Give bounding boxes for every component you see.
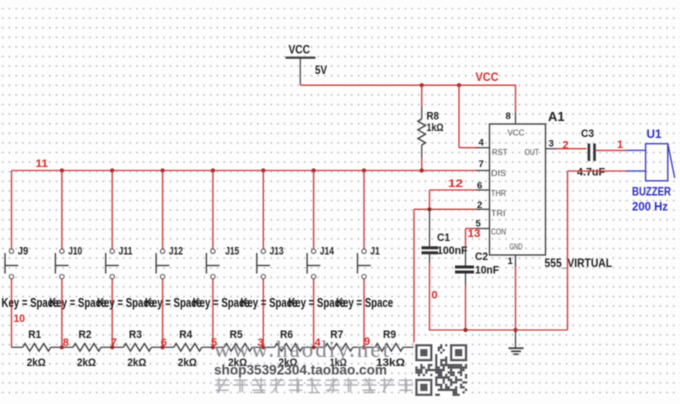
svg-text:R4: R4 xyxy=(179,329,193,341)
svg-text:6: 6 xyxy=(161,337,167,349)
net label 12 xyxy=(448,178,463,190)
watermark chinese caption xyxy=(215,378,414,393)
svg-text:R1: R1 xyxy=(28,329,41,341)
switch J14 key=space xyxy=(307,171,334,348)
svg-text:A1: A1 xyxy=(548,110,565,124)
svg-text:DIS: DIS xyxy=(491,169,506,178)
buzzer label BUZZER xyxy=(632,185,671,199)
svg-text:VCC: VCC xyxy=(289,45,311,57)
switch J13 key=space xyxy=(257,171,284,348)
svg-text:THR: THR xyxy=(491,189,506,198)
svg-text:C2: C2 xyxy=(475,251,488,263)
svg-text:J1: J1 xyxy=(370,246,380,258)
buzzer label U1 xyxy=(647,127,662,141)
svg-text:8: 8 xyxy=(506,111,511,122)
svg-text:J15: J15 xyxy=(225,246,239,258)
junction chain node J1 xyxy=(362,345,366,349)
svg-text:R8: R8 xyxy=(427,111,440,123)
junction bus11 J13 xyxy=(261,168,265,172)
buzzer U1 xyxy=(626,144,675,181)
svg-text:J14: J14 xyxy=(320,246,335,258)
chip name 555_VIRTUAL xyxy=(545,256,613,270)
resistor R9 13kΩ xyxy=(364,329,414,369)
svg-text:1kΩ: 1kΩ xyxy=(427,122,444,134)
switch J15 label Key = Space xyxy=(193,295,250,310)
svg-text:10nF: 10nF xyxy=(475,265,499,277)
junction bus11 J1 xyxy=(362,168,366,172)
junction at RST branch xyxy=(457,83,461,87)
net label 2 xyxy=(563,139,569,151)
junction bus11 J14 xyxy=(312,168,316,172)
svg-text:VCC: VCC xyxy=(508,129,525,138)
svg-text:2kΩ: 2kΩ xyxy=(77,357,96,369)
wire TRI pin 2 to R9 xyxy=(414,200,490,347)
switch J1 label Key = Space xyxy=(336,295,393,310)
ground symbol xyxy=(509,330,524,354)
net label 0 xyxy=(432,290,438,302)
resistor R8 1k pull-up xyxy=(418,85,444,171)
junction bus11 J12 xyxy=(161,168,165,172)
svg-text:J12: J12 xyxy=(169,246,183,258)
svg-text:1: 1 xyxy=(508,256,514,267)
svg-text:R2: R2 xyxy=(79,329,92,341)
net label 9 xyxy=(364,336,370,348)
svg-text:3: 3 xyxy=(549,138,554,149)
svg-text:OUT: OUT xyxy=(525,148,540,157)
net label 3 xyxy=(258,337,264,349)
net label 8 xyxy=(63,337,69,349)
wire net 0 ground bus xyxy=(430,171,568,330)
junction bus11 J15 xyxy=(211,168,215,172)
junction chain node J11 xyxy=(110,345,114,349)
svg-text:GND: GND xyxy=(510,243,523,252)
wire VCC to RST pin 4 xyxy=(459,85,490,149)
switch J15 key=space xyxy=(206,171,239,348)
net label VCC on wire xyxy=(476,72,499,84)
junction chain node J10 xyxy=(60,345,64,349)
switch J10 key=space xyxy=(55,171,82,348)
watermark www.haodiy.net xyxy=(214,337,390,362)
switch J11 key=space xyxy=(106,171,133,348)
svg-text:J10: J10 xyxy=(68,246,82,258)
junction node 12 C1 top xyxy=(427,207,431,211)
capacitor C2 10nF xyxy=(455,248,499,330)
svg-text:12: 12 xyxy=(448,178,463,190)
resistor R1 2kΩ xyxy=(12,329,62,369)
svg-text:4.7uF: 4.7uF xyxy=(577,167,605,179)
svg-text:U1: U1 xyxy=(647,127,662,141)
svg-text:TRI: TRI xyxy=(491,209,506,218)
resistor R4 2kΩ xyxy=(163,329,213,369)
svg-text:6: 6 xyxy=(477,180,482,191)
wire THR pin 6 to node 12 xyxy=(430,180,490,209)
power symbol VCC 5V source xyxy=(286,45,328,86)
switch J14 label Key = Space xyxy=(288,295,345,310)
switch J1 key=space xyxy=(358,171,380,348)
switch J9 key=space xyxy=(5,171,28,348)
junction net0 gnd xyxy=(513,328,517,332)
svg-text:13: 13 xyxy=(468,228,481,240)
wire VCC bus from 5V source to pin 8 and R8 xyxy=(300,84,515,86)
svg-text:J13: J13 xyxy=(270,246,284,258)
junction net0 C2 xyxy=(463,328,467,332)
junction chain node J14 xyxy=(312,345,316,349)
svg-text:Key = Space: Key = Space xyxy=(336,295,393,310)
net label 5 xyxy=(211,337,217,349)
net label 13 xyxy=(468,228,481,240)
net label 7 xyxy=(111,337,117,349)
resistor R2 2kΩ xyxy=(62,329,112,369)
svg-text:5V: 5V xyxy=(315,65,327,77)
wire net 11 bus to DIS pin 7 xyxy=(12,159,490,171)
svg-text:10: 10 xyxy=(14,313,26,325)
wire OUT pin 3 to C3 xyxy=(546,138,587,149)
resistor R5 2kΩ xyxy=(213,329,263,369)
resistor R3 2kΩ xyxy=(112,329,162,369)
resistor R6 2kΩ xyxy=(263,329,313,369)
svg-text:C3: C3 xyxy=(581,128,594,140)
switch J9 label Key = Space xyxy=(2,295,59,310)
watermark shop35392304.taobao.com xyxy=(214,363,387,378)
wire buzzer bottom to net 0 xyxy=(568,170,627,172)
svg-text:11: 11 xyxy=(36,158,49,170)
net label 4 xyxy=(315,337,322,349)
svg-text:RST: RST xyxy=(492,148,508,157)
QR code watermark xyxy=(414,343,469,398)
wire GND pin 1 to net 0 xyxy=(508,255,516,330)
junction at R8 top xyxy=(420,83,424,87)
junction bus11 R8 xyxy=(420,168,424,172)
svg-text:R3: R3 xyxy=(129,329,142,341)
wire CON pin 5 to C2 xyxy=(466,218,490,248)
svg-text:7: 7 xyxy=(479,159,484,170)
svg-text:7: 7 xyxy=(111,337,117,349)
switch J11 label Key = Space xyxy=(97,295,154,310)
svg-text:0: 0 xyxy=(432,290,438,302)
IC A1 555_VIRTUAL timer body xyxy=(490,124,546,255)
chip label A1 xyxy=(548,110,565,124)
svg-text:555_VIRTUAL: 555_VIRTUAL xyxy=(545,256,613,270)
net label 10 xyxy=(14,313,26,325)
capacitor C3 4.7uF xyxy=(577,128,605,179)
svg-text:2kΩ: 2kΩ xyxy=(178,357,197,369)
svg-text:8: 8 xyxy=(63,337,69,349)
net label 11 xyxy=(36,158,49,170)
chip inner pin names xyxy=(491,129,539,252)
switch J10 label Key = Space xyxy=(49,295,106,310)
wire VCC down to pin 8 xyxy=(506,85,516,124)
wire C3 to buzzer pin 1 xyxy=(596,149,626,151)
resistor R7 1kΩ xyxy=(314,329,364,369)
svg-text:200 Hz: 200 Hz xyxy=(632,200,668,214)
svg-text:2kΩ: 2kΩ xyxy=(27,357,46,369)
switch J13 label Key = Space xyxy=(241,295,298,310)
svg-text:CON: CON xyxy=(491,228,506,237)
buzzer label 200 Hz xyxy=(632,200,668,214)
svg-text:www.haodiy.net: www.haodiy.net xyxy=(214,337,390,362)
junction chain node J13 xyxy=(261,345,265,349)
svg-text:J11: J11 xyxy=(119,246,133,258)
switch J12 label Key = Space xyxy=(145,295,202,310)
svg-text:VCC: VCC xyxy=(476,72,499,84)
junction bus11 J11 xyxy=(110,168,114,172)
svg-text:J9: J9 xyxy=(18,246,29,258)
net label 6 xyxy=(161,337,167,349)
svg-text:2kΩ: 2kΩ xyxy=(127,357,146,369)
svg-text:2: 2 xyxy=(477,200,482,211)
svg-text:1: 1 xyxy=(617,139,623,151)
capacitor C1 100nF xyxy=(422,209,468,330)
svg-text:100nF: 100nF xyxy=(437,245,468,257)
svg-text:2: 2 xyxy=(563,139,569,151)
svg-text:4: 4 xyxy=(479,137,485,148)
net label 1 xyxy=(617,139,623,151)
junction chain node J12 xyxy=(161,345,165,349)
svg-text:shop35392304.taobao.com: shop35392304.taobao.com xyxy=(214,363,387,378)
svg-text:BUZZER: BUZZER xyxy=(632,185,671,199)
svg-text:C1: C1 xyxy=(437,232,450,244)
junction bus11 J10 xyxy=(60,168,64,172)
junction chain node J15 xyxy=(211,345,215,349)
switch J12 key=space xyxy=(156,171,183,348)
